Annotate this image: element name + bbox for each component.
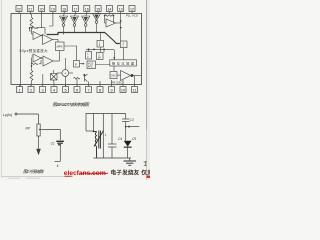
buffer amp A1 (60, 16, 68, 24)
svg-text:PLL VCO: PLL VCO (126, 14, 139, 18)
junction R5 right (113, 15, 115, 17)
transistor Q1 leads (85, 74, 88, 82)
wire C4 to ground bus (111, 147, 113, 158)
transformer L1 (94, 131, 104, 159)
VCO/AFC block (87, 61, 96, 69)
svg-text:19: 19 (51, 7, 55, 11)
top pin numbers (17, 7, 134, 11)
ground symbol (124, 160, 137, 162)
svg-text:RP: RP (26, 127, 31, 131)
pin 21 (27, 6, 33, 12)
RF buffer amp U3 (121, 71, 131, 81)
svg-text:C5: C5 (132, 137, 136, 141)
wire A3 to bus (85, 26, 87, 32)
junction divider wire mid and Q1 base (93, 49, 95, 51)
wire U3 output to pin11 (134, 76, 136, 85)
op-amp U1b (43, 35, 53, 45)
resistor R2 (30, 27, 37, 29)
wire U1b output (53, 39, 59, 41)
potentiometer RP (37, 124, 40, 136)
wire to MPX lower input (59, 51, 61, 62)
svg-text:4: 4 (53, 89, 55, 93)
buffer amp A2 (71, 16, 79, 24)
junction R2 right and U1a out (36, 27, 38, 29)
right part of application circuit (86, 114, 139, 166)
wire VCO block to phase comparator (96, 64, 110, 66)
op-amp U1d (43, 56, 53, 66)
capacitor C1 body (56, 141, 64, 142)
resistor R1 lead (30, 14, 31, 18)
pin 16 (84, 6, 90, 12)
svg-text:8: 8 (99, 89, 101, 93)
svg-text:17: 17 (74, 7, 78, 11)
junction L1 top (93, 131, 95, 133)
signal bus wire (47, 33, 120, 44)
wire C3 to diode (125, 122, 127, 141)
wire summing node to pin5 (64, 76, 66, 86)
junction pin13 wire lower (120, 27, 122, 29)
svg-text:OSC: OSC (111, 75, 116, 77)
wire U1d output (53, 60, 60, 62)
wire rail to L primary (86, 130, 94, 132)
pin 13 (118, 6, 124, 12)
junction divider wire left (88, 49, 90, 51)
summing node S1 (62, 70, 69, 77)
buffer A3 output bubble (84, 24, 87, 27)
wire summing node right (69, 72, 73, 74)
wire U3 output to border (133, 75, 142, 77)
wire summing node left (57, 72, 62, 74)
resistor R3 (30, 71, 33, 81)
bottom margin faint text rule (8, 177, 40, 179)
red corner mark (147, 176, 151, 179)
wire RP bottom (38, 136, 40, 149)
pin 12 (129, 6, 135, 12)
wire RP wiper (41, 129, 45, 131)
pin 7 (86, 87, 92, 93)
crystal X1 cross (51, 74, 58, 81)
junction R5 left (104, 15, 106, 17)
pilot generator block P (74, 61, 80, 68)
pin 10 (120, 87, 126, 93)
wire X1 to pin4 (53, 80, 55, 85)
svg-text:图1 BA1417内部结构框图: 图1 BA1417内部结构框图 (53, 102, 90, 107)
wire C1 down (59, 146, 61, 162)
watermark (64, 169, 153, 177)
node U3 output (solid) (131, 74, 133, 77)
pin 6 (74, 87, 80, 93)
wire rail drop to C4 (111, 114, 113, 145)
wire U1a to U1b (41, 35, 43, 37)
crystal X1 box (51, 74, 58, 81)
svg-text:16: 16 (85, 7, 89, 11)
oscillator OSC block (110, 72, 117, 79)
wire pin22 to pin1 (20, 14, 22, 87)
page right edge strip (147, 0, 150, 180)
svg-text:21: 21 (28, 7, 32, 11)
figure 2 caption (23, 169, 44, 174)
svg-text:AFC: AFC (88, 66, 93, 69)
arrowhead RP wiper (39, 128, 41, 130)
pin 2 (28, 87, 34, 93)
wire rail drop to C3 (125, 114, 127, 120)
svg-text:P: P (75, 63, 77, 67)
capacitor C3 (122, 118, 129, 120)
wire U1c to U1d (41, 57, 43, 59)
op-amp U1a (33, 32, 41, 40)
junction divider wire right (103, 49, 105, 51)
svg-text:9: 9 (110, 89, 112, 93)
pin 20 (39, 6, 45, 12)
wire down to RP (38, 114, 40, 124)
wire into phase comparator (113, 50, 115, 60)
capacitor C4 (108, 143, 117, 145)
svg-text:k: k (57, 164, 59, 168)
arrow to next stage (36, 149, 41, 156)
wire divider row (86, 48, 114, 50)
page right edge rule lower (146, 130, 148, 180)
wire pin9 stub (111, 80, 113, 85)
bottom faint rule (2, 176, 70, 178)
IC U1 BA1417 outline (11, 14, 142, 85)
pin 18 (61, 6, 67, 12)
buffer A4 output bubble (95, 21, 98, 24)
wire Lin to RP (17, 113, 39, 115)
buffer A2 output bubble (73, 24, 76, 27)
wire pin19 down (49, 14, 53, 27)
svg-text:5: 5 (64, 89, 66, 93)
svg-text:RF OSC: RF OSC (112, 80, 123, 84)
junction R2 left (29, 27, 31, 29)
wire U2 output (116, 22, 121, 24)
wire Q1 to pin7 (88, 82, 90, 85)
MPX modulator block (56, 42, 65, 51)
resistor R4 (31, 63, 38, 65)
divider block D4 (1/38) (96, 52, 103, 59)
divider block D1 (1/2) (97, 40, 104, 47)
svg-text:15: 15 (96, 7, 100, 11)
wire wiper to C1 (45, 130, 61, 141)
svg-text:2: 2 (30, 89, 32, 93)
svg-text:50μs预加重放大: 50μs预加重放大 (20, 48, 49, 53)
ground bus wire (94, 157, 132, 159)
wire rail drop 2 (102, 114, 104, 159)
ground stub (55, 160, 61, 162)
buffer amp inner fills (61, 15, 98, 22)
pin 8 (97, 87, 103, 93)
junction antenna tap (125, 126, 127, 128)
feedback loop R4 wires (31, 58, 41, 64)
op-amp U2 (106, 19, 116, 27)
figure 1 caption (53, 102, 90, 107)
svg-text:C3: C3 (130, 118, 134, 122)
wire pin10 stub (122, 80, 124, 85)
wire X1 up (53, 70, 55, 74)
top pin row: pins 22..12 (16, 6, 135, 14)
wire bus to D1 (99, 33, 101, 41)
svg-text:11: 11 (133, 89, 137, 93)
wire to D3 (88, 49, 90, 51)
page right edge rule (146, 0, 148, 130)
pin 9 (109, 87, 115, 93)
phase comparator block (110, 60, 137, 66)
pin 4 (51, 87, 57, 93)
svg-text:22: 22 (17, 7, 21, 11)
divider block D2 (1/2) (120, 41, 127, 48)
op-amp U1c (33, 54, 41, 62)
pin 15 (95, 6, 101, 12)
divider block D3 (1/2) (86, 52, 92, 60)
arrowhead P output (83, 63, 85, 65)
junction R3 top (31, 65, 33, 67)
wire R3 to pin2 (31, 81, 33, 85)
svg-text:3: 3 (41, 89, 43, 93)
watermark strike line (80, 172, 108, 174)
arrowhead into phase comparator (113, 57, 115, 60)
transistor Q1 (84, 75, 86, 82)
resistor R6 (74, 77, 81, 79)
svg-text:C4: C4 (118, 137, 122, 141)
wire to R3 (31, 64, 33, 71)
svg-text:1: 1 (18, 89, 20, 93)
wire R1 to U1a input (31, 28, 33, 35)
resistor R5 (105, 15, 114, 17)
wire MPX output (64, 46, 77, 61)
right margin stray glyph (144, 161, 147, 166)
buffer A1 output bubble (62, 24, 65, 27)
antenna tap wire (128, 126, 139, 128)
wire A4 to bus (96, 23, 98, 32)
pin 14 (106, 6, 112, 12)
diode VD1 (124, 141, 132, 148)
svg-text:6: 6 (76, 89, 78, 93)
tiny chinese-ish labels inside IC (20, 41, 135, 84)
wire pin3 stub (42, 74, 44, 85)
wire rail drop 1 (93, 114, 95, 132)
wire pin20 down (41, 14, 43, 28)
svg-text:14: 14 (107, 7, 111, 11)
svg-text:电子发烧友 仅见: 电子发烧友 仅见 (111, 169, 151, 177)
pin 22 (16, 6, 22, 12)
wire pin8 stub (99, 81, 101, 85)
input terminal Lin (15, 113, 17, 115)
junction pin13 wire (120, 20, 122, 22)
wire pin13 to D2 (120, 14, 122, 42)
feedback loop R2 wires (30, 28, 46, 34)
pin 3 (40, 87, 46, 93)
middle lower area (43, 58, 142, 87)
wire R5 to U2 output (113, 16, 115, 24)
wire into summing node (64, 58, 66, 70)
svg-text:MPX: MPX (57, 45, 63, 49)
wire A2 to bus (74, 26, 76, 32)
wire phase comparator to OSC (113, 66, 115, 72)
svg-text:13: 13 (119, 7, 123, 11)
wire R6 to pin6 (76, 79, 78, 85)
svg-text:7: 7 (87, 89, 89, 93)
resistor R1 (30, 18, 33, 28)
buffer amp A4 (93, 14, 101, 21)
pin 19 (50, 6, 56, 12)
svg-text:12: 12 (130, 7, 134, 11)
pin 11 (132, 87, 138, 93)
wire U1c input (32, 55, 34, 57)
svg-text:Lμ(in): Lμ(in) (3, 113, 12, 117)
wire P output (80, 63, 85, 65)
svg-text:图2 外围电路: 图2 外围电路 (23, 169, 44, 174)
wire diode to ground bus (127, 148, 129, 159)
wire to D4 (103, 49, 105, 52)
wire to MPX input (57, 40, 59, 43)
watermark underline (65, 175, 73, 177)
pin 1 (17, 87, 23, 93)
svg-text:L: L (105, 133, 107, 137)
page left edge rule (1, 0, 3, 178)
wire OSC to U3 (117, 74, 121, 76)
pin 5 (63, 87, 69, 93)
svg-text:18: 18 (62, 7, 66, 11)
svg-text:C1: C1 (51, 141, 55, 145)
wire D2 to phase comparator (123, 48, 125, 60)
svg-text:20: 20 (40, 7, 44, 11)
pin 17 (73, 6, 79, 12)
arrowhead antenna tap (126, 125, 129, 127)
wire U1a input (32, 33, 34, 35)
wire D1 to D4 (99, 47, 101, 52)
wire A1 to bus (63, 26, 65, 34)
wire supply rail (86, 114, 126, 132)
svg-text:10: 10 (121, 89, 125, 93)
wire R5 to U2 input (105, 16, 106, 24)
pin2 stub (30, 85, 32, 87)
buffer amp A3 (82, 16, 90, 24)
bottom pin row: pins 1..11 (17, 85, 138, 93)
